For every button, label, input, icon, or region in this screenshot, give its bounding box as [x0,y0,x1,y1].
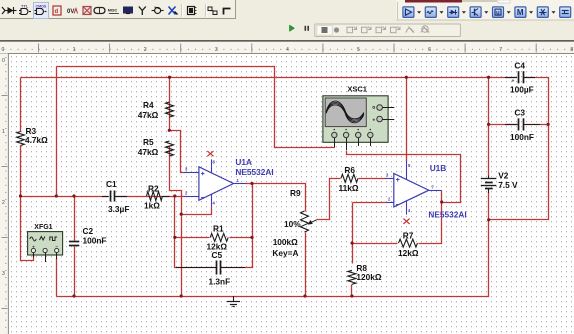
svg-text:Key=A: Key=A [272,248,298,258]
svg-text:0V: 0V [67,9,74,15]
svg-text:1.3nF: 1.3nF [209,277,231,287]
svg-text:TTL: TTL [21,4,29,9]
svg-text:V2: V2 [498,170,509,180]
svg-text:12kΩ: 12kΩ [398,248,419,258]
svg-text:d: d [55,9,59,15]
svg-text:XSC1: XSC1 [347,85,367,94]
svg-text:C4: C4 [514,60,525,70]
svg-text:10%: 10% [284,219,301,229]
svg-text:CMOS: CMOS [36,5,47,9]
svg-text:8: 8 [570,47,573,53]
svg-text:U1B: U1B [430,163,447,173]
svg-text:4: 4 [286,47,289,53]
svg-text:47kΩ: 47kΩ [138,147,159,157]
svg-text:C5: C5 [212,250,223,260]
svg-text:R7: R7 [403,231,414,241]
svg-text:C3: C3 [514,107,525,117]
svg-text:4.7kΩ: 4.7kΩ [25,135,48,145]
svg-text:+: + [32,244,35,249]
svg-text:2: 2 [2,200,5,206]
svg-text:1: 1 [2,129,5,135]
svg-text:7.5 V: 7.5 V [498,180,518,190]
svg-text:1kΩ: 1kΩ [144,201,160,211]
svg-text:120kΩ: 120kΩ [356,272,381,282]
svg-text:+: + [512,79,515,85]
svg-text:R2: R2 [148,184,159,194]
svg-text:R4: R4 [143,100,154,110]
svg-text:R5: R5 [143,137,154,147]
svg-text:NE5532AI: NE5532AI [235,167,273,177]
svg-text:NE5532AI: NE5532AI [428,209,466,219]
svg-text:1: 1 [73,47,76,53]
svg-text:100nF: 100nF [83,236,107,246]
svg-text:0: 0 [2,47,5,53]
svg-text:R6: R6 [344,165,355,175]
svg-text:U1A: U1A [235,157,252,167]
svg-text:C2: C2 [83,226,94,236]
svg-text:3: 3 [2,271,5,277]
svg-text:3: 3 [215,47,218,53]
svg-text:3.3µF: 3.3µF [108,204,129,214]
svg-text:2: 2 [144,47,147,53]
svg-text:7: 7 [499,47,502,53]
svg-text:100kΩ: 100kΩ [273,237,298,247]
svg-text:MISC: MISC [108,9,118,13]
svg-text:−: − [55,244,58,249]
svg-text:5: 5 [357,47,360,53]
svg-text:100nF: 100nF [510,132,534,142]
svg-text:R1: R1 [213,223,224,233]
svg-text:0: 0 [2,58,5,64]
svg-text:11kΩ: 11kΩ [339,183,359,193]
svg-text:100µF: 100µF [510,85,534,95]
svg-text:47kΩ: 47kΩ [138,110,159,120]
svg-text:M: M [517,8,524,17]
svg-text:u: u [496,11,500,17]
svg-text:XFG1: XFG1 [34,224,52,231]
svg-text:6: 6 [428,47,431,53]
svg-text:R9: R9 [290,188,301,198]
svg-text:C1: C1 [106,179,117,189]
